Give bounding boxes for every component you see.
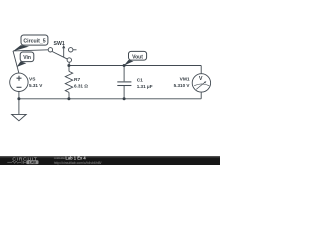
svg-text:C1: C1 xyxy=(137,77,143,83)
ground xyxy=(12,99,27,121)
wire C1 bottom plate to junction xyxy=(123,86,125,99)
svg-text:5.31 V: 5.31 V xyxy=(29,83,43,88)
svg-text:Vin: Vin xyxy=(23,55,31,61)
wire VS bottom to junction xyxy=(18,92,20,99)
wire VS top to corner node xyxy=(13,51,19,73)
junction VS bottom node xyxy=(17,97,20,100)
wire switch common to junction xyxy=(68,62,70,65)
capacitor C1 xyxy=(117,82,131,86)
junction C1 bottom node xyxy=(123,97,126,100)
net flag Vin xyxy=(17,61,27,67)
svg-text:1.31 μF: 1.31 μF xyxy=(137,84,153,89)
svg-text:LAB: LAB xyxy=(29,160,37,164)
voltmeter VM1 xyxy=(192,74,210,92)
wire VM1 bottom to bottom wire xyxy=(200,92,202,99)
voltage source VS xyxy=(10,73,28,91)
junction Vout node xyxy=(123,64,126,67)
net flag Circuit_5 xyxy=(13,45,29,51)
switch SW1 xyxy=(48,45,76,62)
svg-text:Vout: Vout xyxy=(132,54,143,60)
junction switch/R7 top node xyxy=(67,64,70,67)
wire junction to R7 top xyxy=(68,66,70,72)
wire corner node to switch left pin xyxy=(13,50,48,51)
svg-text:R7: R7 xyxy=(74,77,80,83)
svg-text:5.310 V: 5.310 V xyxy=(174,83,191,88)
svg-text:Circuit_5: Circuit_5 xyxy=(23,39,45,45)
svg-text:VM1: VM1 xyxy=(180,77,190,83)
wire Vout node to C1 top plate xyxy=(123,66,125,82)
resistor R7 xyxy=(65,71,72,92)
top wire xyxy=(69,65,201,67)
svg-text:SW1: SW1 xyxy=(54,41,65,47)
bottom wire xyxy=(19,98,201,100)
svg-text:Lab 1 Ex 4: Lab 1 Ex 4 xyxy=(65,155,86,160)
wire R7 bottom to junction xyxy=(68,92,70,98)
wire top wire to VM1 top xyxy=(200,66,202,74)
svg-text:6.31 Ω: 6.31 Ω xyxy=(74,83,88,88)
svg-text:V: V xyxy=(199,76,203,82)
svg-text:http://circuitlab.com/c/b4vb6h: http://circuitlab.com/c/b4vb6hf8/ xyxy=(54,161,102,165)
junction R7 bottom node xyxy=(67,97,70,100)
footer banner xyxy=(0,156,220,165)
net flag Vout xyxy=(124,60,134,66)
svg-text:VS: VS xyxy=(29,77,36,83)
